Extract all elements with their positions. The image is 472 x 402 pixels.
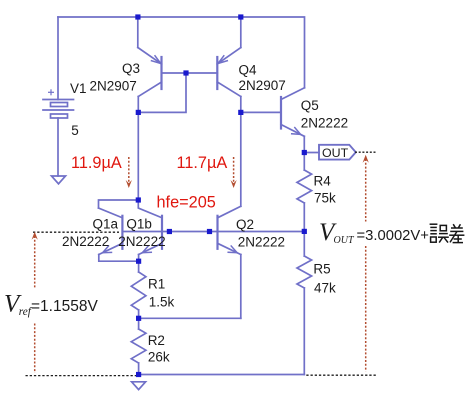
- svg-text:2N2222: 2N2222: [238, 234, 285, 249]
- red measure arrow Vout (up): [363, 155, 369, 372]
- svg-text:2N2222: 2N2222: [118, 234, 165, 249]
- flag OUT: [319, 145, 356, 160]
- kanji 差 (drawn): [449, 224, 464, 242]
- svg-text:V1: V1: [70, 81, 87, 96]
- wire Q1a collector link: [99, 200, 139, 208]
- wire ground rail: [139, 374, 305, 376]
- wire Q3 emitter drop: [137, 17, 139, 48]
- transistor Q3 (PNP, mirrored): [138, 48, 162, 113]
- node: rail / Q3 emitter: [135, 14, 140, 19]
- wire base-to-collector tie (Q3 diode connection): [138, 73, 186, 112]
- black dashed line at OUT: [355, 151, 377, 153]
- svg-text:2N2222: 2N2222: [301, 115, 348, 130]
- svg-text:=3.0002V+: =3.0002V+: [357, 228, 429, 244]
- svg-text:75k: 75k: [314, 191, 336, 206]
- transistor Q5 (NPN): [281, 88, 305, 153]
- svg-text:2N2907: 2N2907: [239, 78, 286, 93]
- node: Q3/Q4 base: [183, 70, 188, 75]
- annotation Vout value: [319, 219, 464, 246]
- red current arrow 11.7uA (down): [231, 157, 237, 188]
- black dotted measure line bottom left: [26, 375, 137, 377]
- svg-text:11.9µA: 11.9µA: [71, 154, 122, 172]
- node: base rail tap 1: [167, 229, 172, 234]
- svg-text:hfe=205: hfe=205: [157, 194, 216, 212]
- wire Q3-Q4 base link: [162, 72, 218, 74]
- annotation Vref value: [4, 291, 98, 319]
- svg-text:R2: R2: [148, 333, 165, 348]
- svg-text:Q4: Q4: [239, 63, 258, 78]
- node: Q1 emitters / R1 top: [136, 259, 141, 264]
- node: Q4 collector / Q5 base: [238, 110, 243, 115]
- wire Q4 collector to Q2 collector: [240, 112, 242, 206]
- wire mirror node down to Q1 collectors: [137, 112, 139, 200]
- wire top rail V+: [58, 17, 305, 88]
- svg-text:2N2907: 2N2907: [90, 79, 137, 94]
- red measure arrow Vref (up): [32, 232, 38, 373]
- ground (bottom): [132, 382, 146, 390]
- svg-text:=1.1558V: =1.1558V: [31, 298, 98, 315]
- node: base rail tap 2: [207, 229, 212, 234]
- svg-text:2N2222: 2N2222: [62, 234, 109, 249]
- svg-text:1.5k: 1.5k: [149, 294, 175, 309]
- ground (V1): [52, 176, 66, 184]
- transistor Q1b (NPN, mirrored): [138, 200, 162, 261]
- wire V1 top lead: [57, 17, 59, 100]
- transistor Q2 (NPN): [218, 206, 241, 318]
- wire to OUT flag: [304, 152, 319, 154]
- wire Q4 emitter drop: [240, 17, 242, 48]
- battery V1: [43, 90, 74, 118]
- black dotted measure line bottom right: [306, 374, 377, 376]
- black dotted measure line at Vref level: [33, 231, 119, 233]
- node: rail / Q4 emitter: [238, 14, 243, 19]
- svg-text:R5: R5: [313, 262, 330, 277]
- svg-text:R1: R1: [148, 276, 165, 291]
- svg-text:Q1a: Q1a: [93, 216, 119, 231]
- node: Q1 collectors: [136, 197, 141, 202]
- red current arrow 11.9uA (down): [126, 157, 132, 188]
- svg-text:47k: 47k: [314, 280, 336, 295]
- node: ground rail: [136, 372, 141, 377]
- svg-text:11.7µA: 11.7µA: [177, 154, 228, 172]
- node: R1/R2 / Q2 emitter: [136, 316, 141, 321]
- node: OUT / Q5 emitter: [302, 150, 307, 155]
- node: Q3 collector: [136, 110, 141, 115]
- svg-text:Q1b: Q1b: [126, 216, 152, 231]
- node: R4/R5 feedback: [302, 229, 307, 234]
- svg-text:OUT: OUT: [322, 146, 349, 160]
- svg-text:OUT: OUT: [334, 235, 355, 246]
- wire V1 bottom lead: [57, 118, 59, 176]
- transistor Q1a (NPN, mirrored): [99, 208, 139, 261]
- svg-text:5: 5: [71, 123, 79, 138]
- kanji 誤 (drawn): [430, 224, 449, 242]
- svg-text:Q3: Q3: [122, 61, 140, 76]
- wire base rail Q1a/Q1b/Q2 to feedback node: [122, 231, 304, 233]
- wire Q2 emitter to R1/R2 node: [139, 317, 241, 319]
- transistor Q4 (PNP): [217, 48, 241, 113]
- resistor R4: [297, 153, 312, 232]
- svg-text:Q2: Q2: [236, 217, 254, 232]
- svg-text:Q5: Q5: [301, 98, 319, 113]
- wire Q5 base: [241, 111, 281, 113]
- svg-text:26k: 26k: [148, 350, 170, 365]
- resistor R2: [131, 318, 146, 374]
- resistor R1: [131, 261, 146, 318]
- resistor R5: [297, 231, 312, 374]
- svg-text:R4: R4: [314, 173, 332, 188]
